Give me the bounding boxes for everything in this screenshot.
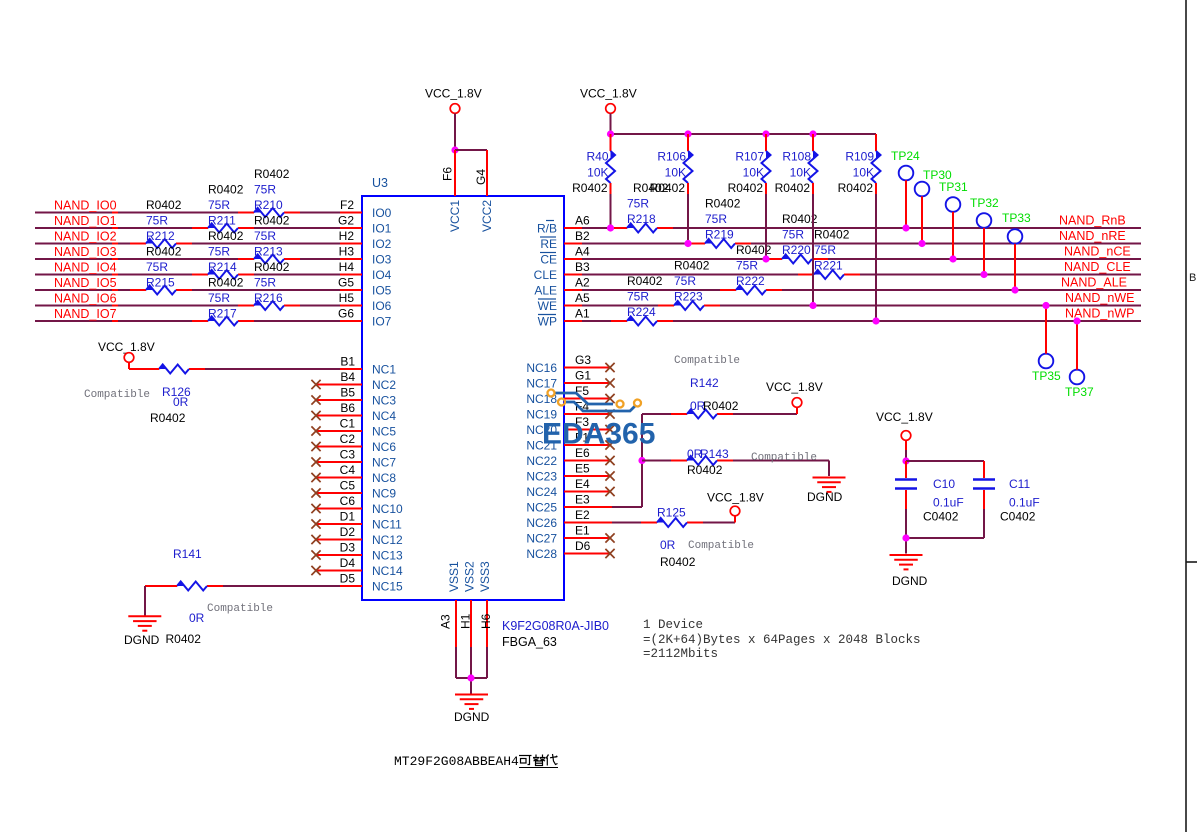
svg-text:B3: B3 bbox=[575, 260, 590, 274]
junction C10 bottom bbox=[902, 534, 909, 541]
svg-text:NC12: NC12 bbox=[372, 533, 403, 547]
svg-text:NC11: NC11 bbox=[372, 518, 402, 532]
R40 labels bbox=[572, 150, 609, 196]
wire VCC1/VCC2 pins F6 G4 bbox=[455, 150, 487, 196]
resistor R125 0R bbox=[657, 518, 687, 527]
svg-text:A5: A5 bbox=[575, 291, 590, 305]
svg-text:H2: H2 bbox=[339, 229, 355, 243]
ground DGND at C10 bbox=[890, 555, 928, 588]
no-connect pin C1 NC5 bbox=[311, 426, 362, 435]
svg-text:TP31: TP31 bbox=[939, 180, 968, 194]
svg-text:Compatible: Compatible bbox=[207, 603, 273, 615]
svg-text:IO4: IO4 bbox=[372, 268, 392, 282]
svg-text:C11: C11 bbox=[1009, 477, 1030, 491]
svg-text:C4: C4 bbox=[340, 463, 356, 477]
svg-text:NC10: NC10 bbox=[372, 502, 403, 516]
pin number A4 bbox=[575, 245, 590, 259]
svg-text:B5: B5 bbox=[340, 386, 355, 400]
svg-text:VSS2: VSS2 bbox=[463, 561, 477, 592]
svg-text:0R: 0R bbox=[173, 395, 189, 409]
pin number H4 bbox=[339, 260, 355, 274]
svg-text:NC15: NC15 bbox=[372, 580, 403, 594]
U3 pin names VSS1 VSS2 VSS3 vertical bbox=[447, 561, 492, 592]
net label NAND_IO1 bbox=[54, 214, 117, 228]
no-connect pin F1 NC21 bbox=[564, 440, 615, 449]
svg-text:R0402: R0402 bbox=[775, 181, 811, 195]
no-connect pin D1 NC11 bbox=[311, 519, 362, 528]
svg-text:R215: R215 bbox=[146, 276, 175, 290]
wire VSS pins A3 H1 H6 bbox=[456, 600, 487, 694]
R214 labels bbox=[208, 229, 244, 274]
wire NC26 to R125 bbox=[564, 516, 735, 523]
svg-text:R0402: R0402 bbox=[703, 399, 739, 413]
pin number F1 bbox=[575, 431, 589, 445]
pin number E3 bbox=[575, 493, 590, 507]
svg-text:A2: A2 bbox=[575, 276, 590, 290]
R221 labels bbox=[814, 228, 850, 273]
svg-text:D1: D1 bbox=[340, 510, 356, 524]
svg-text:R214: R214 bbox=[208, 260, 237, 274]
label TP35 bbox=[1032, 369, 1061, 383]
svg-text:R211: R211 bbox=[208, 214, 236, 228]
pin number C1 bbox=[340, 417, 356, 431]
pin number A5 bbox=[575, 291, 590, 305]
capacitor C10 0.1uF bbox=[895, 461, 917, 538]
svg-text:U3: U3 bbox=[372, 176, 388, 190]
svg-text:NAND_IO1: NAND_IO1 bbox=[54, 214, 117, 228]
U3 pin names NC1-NC15 bbox=[372, 363, 403, 594]
no-connect pin E4 NC24 bbox=[564, 487, 615, 496]
pin number B2 bbox=[575, 229, 590, 243]
junction C10 top bbox=[902, 457, 909, 464]
svg-text:75R: 75R bbox=[705, 212, 727, 226]
R213 labels bbox=[254, 214, 290, 259]
svg-text:NAND_IO3: NAND_IO3 bbox=[54, 245, 117, 259]
svg-text:NC26: NC26 bbox=[526, 516, 557, 530]
svg-text:H1: H1 bbox=[459, 613, 473, 629]
EDA365 watermark logo bbox=[548, 390, 642, 412]
pin number D4 bbox=[340, 556, 356, 570]
svg-text:H6: H6 bbox=[479, 613, 493, 629]
svg-text:NC1: NC1 bbox=[372, 363, 396, 377]
svg-text:=(2K+64)Bytes x 64Pages x 2048: =(2K+64)Bytes x 64Pages x 2048 Blocks bbox=[643, 633, 921, 647]
no-connect pin D6 NC28 bbox=[564, 549, 615, 558]
junction VSS bbox=[467, 674, 474, 681]
svg-text:75R: 75R bbox=[146, 260, 168, 274]
svg-text:D2: D2 bbox=[340, 525, 356, 539]
net label NAND_nRE bbox=[1059, 229, 1126, 243]
pin number D5 bbox=[340, 572, 356, 586]
svg-text:A6: A6 bbox=[575, 214, 590, 228]
wire net NAND_nCE bbox=[564, 258, 1141, 260]
svg-text:75R: 75R bbox=[627, 290, 649, 304]
svg-text:NC5: NC5 bbox=[372, 425, 396, 439]
svg-text:VCC_1.8V: VCC_1.8V bbox=[98, 340, 155, 354]
pin number A2 bbox=[575, 276, 590, 290]
svg-text:DGND: DGND bbox=[892, 574, 928, 588]
test point TP31 bbox=[946, 197, 961, 259]
svg-text:DGND: DGND bbox=[807, 490, 843, 504]
no-connect pin F5 NC18 bbox=[564, 394, 615, 403]
R142 labels bbox=[674, 355, 740, 413]
resistor R222 75R bbox=[736, 286, 766, 295]
wire net NAND_nWP bbox=[564, 320, 1141, 322]
net label NAND_IO0 bbox=[54, 199, 117, 213]
resistor R223 75R bbox=[674, 301, 704, 310]
pin number D3 bbox=[340, 541, 356, 555]
net label NAND_IO4 bbox=[54, 261, 117, 275]
svg-text:D6: D6 bbox=[575, 539, 591, 553]
svg-text:B1: B1 bbox=[340, 355, 355, 369]
resistor R107 10K pull-up bbox=[762, 134, 771, 259]
resistor R217 75R bbox=[208, 317, 238, 326]
pin number E4 bbox=[575, 477, 590, 491]
svg-text:G6: G6 bbox=[338, 307, 354, 321]
junction R108 to row bbox=[809, 302, 816, 309]
svg-text:R0402: R0402 bbox=[660, 555, 696, 569]
pin number F3 bbox=[575, 415, 589, 429]
svg-text:TP32: TP32 bbox=[970, 196, 999, 210]
svg-text:IO6: IO6 bbox=[372, 299, 392, 313]
svg-text:NAND_IO4: NAND_IO4 bbox=[54, 261, 117, 275]
pin number B4 bbox=[340, 370, 355, 384]
svg-text:Compatible: Compatible bbox=[688, 540, 754, 552]
svg-text:NC27: NC27 bbox=[526, 532, 557, 546]
junction R109 to row bbox=[872, 317, 879, 324]
pin number H2 bbox=[339, 229, 355, 243]
C10 labels bbox=[923, 477, 964, 524]
svg-text:RE: RE bbox=[540, 237, 557, 251]
net label NAND_IO7 bbox=[54, 307, 117, 321]
svg-text:C6: C6 bbox=[340, 494, 356, 508]
svg-text:IO2: IO2 bbox=[372, 237, 392, 251]
svg-text:D4: D4 bbox=[340, 556, 356, 570]
svg-text:75R: 75R bbox=[674, 274, 696, 288]
svg-text:VSS3: VSS3 bbox=[478, 561, 492, 592]
no-connect pin C3 NC7 bbox=[311, 457, 362, 466]
resistor R108 10K pull-up bbox=[809, 134, 818, 306]
svg-text:EDA365: EDA365 bbox=[542, 418, 655, 451]
svg-text:C1: C1 bbox=[340, 417, 356, 431]
svg-text:NAND_nWE: NAND_nWE bbox=[1065, 291, 1134, 305]
svg-text:R108: R108 bbox=[782, 150, 811, 164]
R212 labels bbox=[146, 198, 182, 243]
wire R143 row bbox=[642, 461, 829, 477]
svg-text:R219: R219 bbox=[705, 228, 734, 242]
VCC_1.8V power symbol at C10/C11 bbox=[876, 410, 933, 461]
sheet border frame bbox=[1186, 0, 1197, 832]
resistor R40 10K pull-up bbox=[606, 134, 615, 228]
svg-text:VCC2: VCC2 bbox=[480, 200, 494, 232]
resistor R143 0R bbox=[687, 456, 717, 465]
svg-text:F2: F2 bbox=[340, 198, 354, 212]
R218 labels bbox=[627, 181, 669, 226]
resistor R221 75R bbox=[814, 270, 844, 279]
svg-text:NC4: NC4 bbox=[372, 409, 396, 423]
pin number A1 bbox=[575, 307, 590, 321]
svg-text:R107: R107 bbox=[735, 150, 764, 164]
svg-text:VCC1: VCC1 bbox=[448, 200, 462, 232]
svg-text:75R: 75R bbox=[208, 291, 230, 305]
svg-text:75R: 75R bbox=[208, 198, 230, 212]
no-connect pin F3 NC20 bbox=[564, 425, 615, 434]
svg-text:NAND_nRE: NAND_nRE bbox=[1059, 229, 1126, 243]
svg-text:R106: R106 bbox=[657, 150, 686, 164]
svg-text:NAND_IO0: NAND_IO0 bbox=[54, 199, 117, 213]
no-connect pin G3 NC16 bbox=[564, 363, 615, 372]
resistor R218 75R bbox=[627, 224, 657, 233]
svg-text:R40: R40 bbox=[586, 150, 608, 164]
resistor R213 75R bbox=[254, 255, 284, 264]
svg-text:E4: E4 bbox=[575, 477, 590, 491]
net label NAND_IO2 bbox=[54, 230, 117, 244]
resistor R214 75R bbox=[208, 270, 238, 279]
svg-text:TP37: TP37 bbox=[1065, 385, 1094, 399]
svg-text:R0402: R0402 bbox=[627, 274, 663, 288]
svg-text:G2: G2 bbox=[338, 214, 354, 228]
no-connect pin B5 NC3 bbox=[311, 395, 362, 404]
svg-text:FBGA_63: FBGA_63 bbox=[502, 635, 557, 649]
svg-text:NC22: NC22 bbox=[526, 454, 557, 468]
svg-text:75R: 75R bbox=[254, 183, 276, 197]
resistor R126 0R bbox=[143, 365, 189, 374]
pin number D2 bbox=[340, 525, 356, 539]
R217 labels bbox=[208, 276, 244, 321]
wire R141 to NC15 bbox=[145, 586, 362, 616]
junction R143 branch bbox=[638, 457, 645, 464]
svg-text:R125: R125 bbox=[657, 506, 686, 520]
R223 labels bbox=[674, 259, 710, 304]
svg-text:MT29F2G08ABBEAH4: MT29F2G08ABBEAH4 bbox=[394, 754, 519, 769]
svg-text:IO3: IO3 bbox=[372, 253, 392, 267]
R107 labels bbox=[728, 150, 765, 196]
svg-text:R212: R212 bbox=[146, 229, 175, 243]
svg-text:R0402: R0402 bbox=[254, 167, 290, 181]
svg-text:E2: E2 bbox=[575, 508, 590, 522]
no-connect pin D4 NC14 bbox=[311, 566, 362, 575]
svg-text:Compatible: Compatible bbox=[674, 355, 740, 367]
svg-text:A4: A4 bbox=[575, 245, 590, 259]
svg-text:IO0: IO0 bbox=[372, 206, 392, 220]
svg-text:A3: A3 bbox=[439, 614, 453, 629]
svg-text:R224: R224 bbox=[627, 305, 656, 319]
svg-text:TP33: TP33 bbox=[1002, 211, 1031, 225]
device description text bbox=[643, 618, 921, 661]
R211 labels bbox=[208, 183, 244, 228]
pin number G4 bbox=[474, 169, 488, 185]
svg-text:R109: R109 bbox=[845, 150, 874, 164]
svg-text:NC18: NC18 bbox=[526, 392, 557, 406]
svg-text:G1: G1 bbox=[575, 369, 591, 383]
svg-text:VSS1: VSS1 bbox=[447, 561, 461, 592]
wire net NAND_nRE bbox=[564, 243, 1141, 245]
VCC_1.8V power symbol top right (pull-up bus) bbox=[580, 87, 637, 135]
junction TP35 bbox=[1042, 302, 1049, 309]
net label NAND_nCE bbox=[1064, 245, 1131, 259]
net label NAND_nWP bbox=[1065, 307, 1134, 321]
net label NAND_IO5 bbox=[54, 276, 117, 290]
pin number G3 bbox=[575, 353, 591, 367]
svg-text:VCC_1.8V: VCC_1.8V bbox=[707, 491, 764, 505]
svg-text:R142: R142 bbox=[690, 376, 719, 390]
no-connect pin D2 NC12 bbox=[311, 535, 362, 544]
pin number A6 bbox=[575, 214, 590, 228]
svg-text:R0402: R0402 bbox=[146, 245, 182, 259]
svg-text:10K: 10K bbox=[790, 166, 811, 180]
no-connect pin G1 NC17 bbox=[564, 378, 615, 387]
no-connect pin D3 NC13 bbox=[311, 550, 362, 559]
junction TP30 bbox=[918, 240, 925, 247]
svg-text:75R: 75R bbox=[208, 245, 230, 259]
pin number A3 bbox=[439, 614, 453, 629]
resistor R224 75R bbox=[627, 317, 657, 326]
wire C10/C11 bottom bbox=[906, 538, 984, 554]
svg-text:IO5: IO5 bbox=[372, 284, 392, 298]
label TP33 bbox=[1002, 211, 1031, 225]
test point TP35 bbox=[1039, 306, 1054, 369]
svg-text:IO7: IO7 bbox=[372, 315, 392, 329]
net label NAND_ALE bbox=[1061, 276, 1127, 290]
svg-text:NAND_RnB: NAND_RnB bbox=[1059, 214, 1126, 228]
svg-text:NC24: NC24 bbox=[526, 485, 557, 499]
resistor R219 75R bbox=[705, 239, 735, 248]
net label NAND_IO6 bbox=[54, 292, 117, 306]
svg-text:DGND: DGND bbox=[454, 710, 490, 724]
svg-text:B4: B4 bbox=[340, 370, 355, 384]
wire net NAND_RnB bbox=[564, 227, 1141, 229]
svg-text:75R: 75R bbox=[736, 259, 758, 273]
svg-text:TP35: TP35 bbox=[1032, 369, 1061, 383]
net label NAND_IO3 bbox=[54, 245, 117, 259]
capacitor C11 0.1uF bbox=[973, 461, 995, 538]
no-connect pin C4 NC8 bbox=[311, 473, 362, 482]
wire net NAND_nWE bbox=[564, 305, 1141, 307]
junction TP37 bbox=[1073, 317, 1080, 324]
svg-text:NC14: NC14 bbox=[372, 564, 403, 578]
svg-text:E5: E5 bbox=[575, 462, 590, 476]
svg-text:R0402: R0402 bbox=[814, 228, 850, 242]
svg-text:75R: 75R bbox=[627, 197, 649, 211]
junction TP24 bbox=[902, 224, 909, 231]
pin number C3 bbox=[340, 448, 356, 462]
junction TP33 bbox=[1011, 286, 1018, 293]
svg-text:NC3: NC3 bbox=[372, 394, 396, 408]
resistor R220 75R bbox=[782, 255, 812, 264]
net label NAND_RnB bbox=[1059, 214, 1126, 228]
U3 control pin names with overlines bbox=[534, 221, 557, 329]
svg-text:VCC_1.8V: VCC_1.8V bbox=[425, 87, 482, 101]
net label NAND_nWE bbox=[1065, 291, 1134, 305]
VCC_1.8V power symbol at R126 bbox=[98, 340, 155, 369]
svg-text:0.1uF: 0.1uF bbox=[933, 496, 964, 510]
svg-text:NAND_nCE: NAND_nCE bbox=[1064, 245, 1131, 259]
svg-text:R0402: R0402 bbox=[728, 181, 764, 195]
svg-text:R213: R213 bbox=[254, 245, 283, 259]
test point TP33 bbox=[1008, 229, 1023, 290]
pin number C2 bbox=[340, 432, 356, 446]
svg-text:A1: A1 bbox=[575, 307, 590, 321]
label TP31 bbox=[939, 180, 968, 194]
svg-text:Compatible: Compatible bbox=[84, 389, 150, 401]
svg-text:R/B: R/B bbox=[537, 222, 557, 236]
junction TP31 bbox=[949, 255, 956, 262]
pin number F4 bbox=[575, 400, 589, 414]
svg-text:NC16: NC16 bbox=[526, 361, 557, 375]
pin number E6 bbox=[575, 446, 590, 460]
junction R107 to row bbox=[762, 255, 769, 262]
svg-text:R0402: R0402 bbox=[650, 181, 686, 195]
wire net NAND_IO2 bbox=[35, 243, 362, 245]
svg-text:VCC_1.8V: VCC_1.8V bbox=[580, 87, 637, 101]
no-connect pin F4 NC19 bbox=[564, 409, 615, 418]
svg-text:C10: C10 bbox=[933, 477, 955, 491]
no-connect pin B4 NC2 bbox=[311, 380, 362, 389]
VCC_1.8V power symbol top left (U3 VCC pins) bbox=[425, 87, 482, 151]
svg-text:R0402: R0402 bbox=[687, 463, 723, 477]
svg-text:NC8: NC8 bbox=[372, 471, 396, 485]
VCC_1.8V power symbol at R142 bbox=[766, 380, 823, 407]
pin number C4 bbox=[340, 463, 356, 477]
R108 labels bbox=[775, 150, 812, 196]
no-connect pin C6 NC10 bbox=[311, 504, 362, 513]
test point TP24 bbox=[899, 166, 914, 228]
svg-text:C5: C5 bbox=[340, 479, 356, 493]
junction bus/R108 bbox=[809, 130, 816, 137]
no-connect pin E6 NC22 bbox=[564, 456, 615, 465]
pin number B3 bbox=[575, 260, 590, 274]
svg-text:75R: 75R bbox=[254, 229, 276, 243]
pin number H6 bbox=[479, 613, 493, 629]
pin number D6 bbox=[575, 539, 591, 553]
CJK text ke-ti-dai (replaceable) drawn as strokes bbox=[519, 754, 558, 768]
svg-text:R0402: R0402 bbox=[208, 276, 244, 290]
svg-text:H4: H4 bbox=[339, 260, 355, 274]
svg-text:G5: G5 bbox=[338, 276, 354, 290]
svg-text:NAND_IO7: NAND_IO7 bbox=[54, 307, 117, 321]
svg-text:R0402: R0402 bbox=[208, 183, 244, 197]
svg-text:R0402: R0402 bbox=[166, 632, 202, 646]
svg-text:D3: D3 bbox=[340, 541, 356, 555]
no-connect pin E1 NC27 bbox=[564, 533, 615, 542]
svg-text:75R: 75R bbox=[814, 243, 836, 257]
R106 labels bbox=[650, 150, 687, 196]
pin number G5 bbox=[338, 276, 354, 290]
wire net NAND_ALE bbox=[564, 289, 1141, 291]
svg-text:NAND_IO5: NAND_IO5 bbox=[54, 276, 117, 290]
EDA365 watermark text bbox=[542, 418, 655, 451]
R215 labels bbox=[146, 245, 182, 290]
pin number H3 bbox=[339, 245, 355, 259]
svg-text:C2: C2 bbox=[340, 432, 356, 446]
svg-text:NAND_IO6: NAND_IO6 bbox=[54, 292, 117, 306]
no-connect pin C2 NC6 bbox=[311, 442, 362, 451]
svg-text:R0402: R0402 bbox=[674, 259, 710, 273]
net label NAND_CLE bbox=[1064, 260, 1131, 274]
svg-text:NC23: NC23 bbox=[526, 470, 557, 484]
pin number H1 bbox=[459, 613, 473, 629]
svg-text:G4: G4 bbox=[474, 169, 488, 185]
resistor R216 75R bbox=[254, 301, 284, 310]
wire net NAND_IO1 bbox=[35, 227, 362, 229]
alternate part note MT29F2G08ABBEAH4 bbox=[394, 754, 519, 769]
svg-text:75R: 75R bbox=[254, 276, 276, 290]
resistor R109 10K pull-up bbox=[872, 134, 881, 321]
wire NC25 to R142/R143 junction bbox=[564, 414, 642, 507]
label TP30 bbox=[923, 168, 952, 182]
refdes U3 bbox=[372, 176, 388, 190]
label TP32 bbox=[970, 196, 999, 210]
svg-text:NAND_ALE: NAND_ALE bbox=[1061, 276, 1127, 290]
